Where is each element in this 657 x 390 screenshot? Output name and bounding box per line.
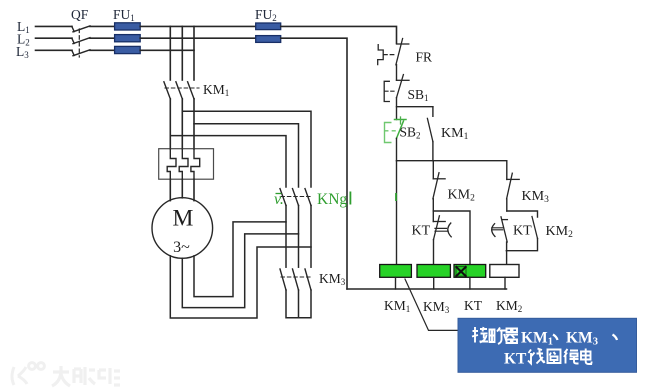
node L3 — [16, 44, 29, 60]
contact KM2 aux blade — [433, 173, 439, 199]
wire delta rail 3 lower — [310, 206, 312, 268]
overload FR heater element 2 — [179, 149, 188, 179]
watermark bottom logo — [12, 363, 44, 385]
button SB1 crossbar — [397, 79, 410, 81]
watermark green tick on rail — [395, 193, 397, 201]
label callout KM1 — [521, 330, 553, 348]
contactor KM3 main pole 3 — [305, 269, 311, 290]
coil KM1 — [380, 265, 412, 278]
node L1 — [17, 19, 30, 35]
label FU2 — [255, 7, 277, 23]
wire rail FR to SB1 — [396, 65, 398, 81]
fuse FU1 pole 3 — [115, 46, 141, 53]
wire QF to FU1 L1 — [90, 25, 115, 27]
contact KT delayed blade right — [501, 217, 507, 242]
label callout glyph xian — [528, 349, 545, 364]
contactor KM1 main pole 3 — [188, 82, 194, 99]
wire KT right to KM2 coil — [506, 242, 508, 265]
contactor KM2 main pole 3 — [305, 189, 311, 206]
wire delta branch from W — [194, 124, 299, 187]
label KM3 main — [319, 271, 346, 287]
wire KT contact to KM3 coil — [433, 240, 435, 265]
breaker QF pole 3 — [72, 50, 90, 56]
wire junction bus — [397, 161, 507, 180]
wire U to overload — [169, 99, 171, 149]
wire motor terminal W2 loop — [194, 222, 286, 297]
wire KM2 parallel rejoin — [506, 239, 537, 251]
wire delta branch from U — [170, 136, 286, 187]
wire V to overload — [181, 99, 183, 149]
wire motor terminal V2 loop — [182, 234, 298, 308]
label KM1 main — [203, 82, 229, 98]
wire phase V drop — [181, 26, 183, 80]
button SB1 blade — [397, 75, 404, 98]
wire overload to motor U — [169, 179, 171, 200]
label KM1 aux — [441, 126, 469, 142]
contact KM3 aux blade — [507, 173, 513, 199]
label QF — [71, 7, 89, 22]
svg-text:KT: KT — [464, 298, 483, 313]
button SB1 actuator — [384, 81, 389, 101]
contact KM1 aux upper stub — [432, 107, 434, 117]
label SB1 — [408, 87, 429, 103]
overload FR heater element 1 — [167, 149, 176, 179]
wire branch to KM2 parallel — [507, 211, 538, 217]
wire branch to KM1 aux — [397, 106, 433, 108]
node L2 — [17, 32, 30, 48]
label callout glyph chu — [490, 328, 507, 345]
contact KT delay arc left — [448, 223, 451, 237]
wire L1 feed — [36, 25, 73, 27]
coil KM3 — [417, 265, 450, 278]
fuse FU2 lower — [256, 36, 281, 43]
overload FR heater box — [159, 149, 214, 180]
contact KM3 aux crossbar — [507, 178, 519, 180]
label callout glyph de — [564, 349, 579, 364]
wire overload to motor W — [193, 179, 195, 200]
contact KT delayed blade left — [434, 216, 440, 240]
breaker QF pole 1 — [72, 26, 90, 32]
wire delta rail 2 lower — [298, 206, 300, 268]
svg-text:FR: FR — [416, 50, 433, 65]
button SB2 blade — [397, 121, 404, 138]
contact KT delay ticks right — [492, 228, 503, 230]
contact KM1 aux blade — [427, 118, 433, 141]
wire QF to FU1 L3 — [90, 49, 115, 51]
contactor KM3 main pole 1 — [280, 269, 286, 290]
svg-text:KT: KT — [513, 224, 532, 239]
label callout KT — [504, 351, 527, 368]
contact KT delay arc right — [492, 224, 495, 237]
wire branch to KT coil — [433, 211, 470, 265]
button SB2 crossbar — [395, 119, 407, 121]
coil KM2 — [490, 265, 519, 278]
breaker QF linkage — [78, 29, 80, 57]
wire KM3 branch lower — [506, 199, 508, 211]
button SB2 actuator — [385, 123, 391, 143]
leader line to callout — [405, 279, 458, 330]
wire L3 feed — [36, 49, 73, 51]
label FU1 — [113, 7, 135, 23]
contactor KM1 main pole 1 — [164, 82, 170, 99]
label callout glyph quan — [548, 350, 561, 364]
overload FR linkage — [384, 54, 396, 56]
label callout comma 2 — [613, 335, 618, 341]
wire KM2 branch lower — [432, 199, 434, 222]
wire phase U drop — [169, 26, 171, 80]
wire L1 to control rail — [281, 26, 397, 43]
svg-text:3~: 3~ — [173, 239, 190, 256]
label FR — [416, 50, 433, 65]
breaker QF pole 2 — [72, 38, 90, 44]
contact KM1 aux lower stub — [432, 142, 434, 161]
label KM2 aux — [448, 188, 476, 204]
label callout comma 1 — [553, 335, 558, 341]
watermark green v. — [274, 191, 284, 208]
label callout KM3 — [566, 330, 598, 348]
wire L2 to return rail — [281, 38, 347, 289]
contact FR crossbar — [397, 43, 409, 45]
wire delta branch from V — [182, 111, 311, 187]
wire rail SB1 to SB2 — [396, 98, 398, 120]
wire W to overload — [193, 99, 195, 149]
wire L2 feed — [36, 37, 73, 39]
wire bottom return bus — [347, 288, 507, 290]
label motor 3~ — [173, 239, 190, 256]
contact KM2 parallel blade — [532, 217, 538, 239]
contactor KM3 linkage — [281, 276, 310, 278]
label coil KM3 — [423, 299, 450, 315]
contactor KM3 main pole 2 — [293, 269, 299, 290]
label motor M — [173, 206, 194, 232]
contact KM2 aux crossbar — [433, 178, 445, 180]
wire KT coil to return — [469, 277, 471, 289]
svg-text:KNg: KNg — [317, 191, 347, 208]
label KM3 aux — [522, 189, 550, 205]
wire rail SB2 to junction — [396, 138, 398, 160]
wire KM2 branch stub — [432, 161, 434, 179]
watermark green KMg — [317, 191, 351, 208]
wire L2 bus — [140, 37, 256, 39]
label callout glyph qi — [506, 329, 519, 344]
wire delta rail 1 lower — [285, 206, 287, 268]
wire rail to KM1 coil — [396, 161, 398, 265]
contactor KM2 main linkage — [281, 196, 310, 198]
wire KM2 coil to return — [504, 277, 506, 289]
overload FR heater element 3 — [191, 149, 200, 179]
label SB2 — [400, 125, 421, 141]
callout box — [458, 318, 637, 372]
button SB2 linkage — [385, 130, 396, 132]
motor M circle — [152, 198, 213, 259]
fuse FU2 upper — [256, 23, 281, 30]
contact KT delay ticks left — [435, 228, 448, 231]
coil KT — [454, 265, 486, 278]
wire L1 bus — [140, 25, 256, 27]
wire L3 bus — [140, 49, 194, 51]
label coil KM2 — [496, 298, 522, 314]
wire KM3 coil to return — [433, 277, 435, 289]
coil KT delay marker — [456, 267, 466, 277]
svg-text:M: M — [173, 206, 194, 232]
wire overload to motor V — [181, 179, 183, 198]
fuse FU1 pole 1 — [115, 23, 141, 30]
wire KM1 coil to return — [395, 277, 397, 289]
contactor KM2 main pole 1 — [280, 189, 286, 206]
wire phase W drop — [193, 26, 195, 80]
label KM2 parallel — [546, 224, 574, 240]
svg-text:KT: KT — [412, 224, 431, 239]
star point bar — [286, 290, 311, 318]
button SB1 linkage — [385, 90, 395, 92]
contactor KM1 linkage — [165, 87, 199, 89]
svg-text:QF: QF — [71, 7, 89, 22]
button SB2 plunger tick — [400, 117, 402, 124]
label coil KT — [464, 298, 483, 313]
contact KT delayed crossbar right — [503, 219, 508, 221]
contact KT delayed crossbar left — [433, 221, 445, 223]
label KT left — [412, 224, 431, 239]
label callout glyph dian — [581, 349, 592, 365]
label KT right — [513, 224, 532, 239]
overload FR sensing element — [378, 45, 384, 65]
label callout glyph jie — [472, 327, 488, 343]
wire motor terminal U2 loop — [170, 247, 311, 318]
fuse FU1 pole 2 — [115, 35, 141, 42]
label coil KM1 — [384, 298, 410, 314]
contact FR blade — [396, 39, 403, 65]
watermark bottom text — [52, 366, 120, 386]
contactor KM1 main pole 2 — [176, 82, 182, 99]
contactor KM2 main pole 2 — [293, 189, 299, 206]
svg-text:KT: KT — [504, 351, 527, 368]
wire QF to FU1 L2 — [90, 37, 115, 39]
